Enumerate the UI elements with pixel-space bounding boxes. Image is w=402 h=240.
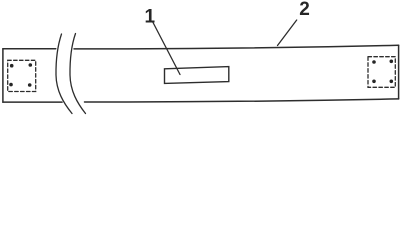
strip 2: top edge right segment bbox=[74, 45, 399, 49]
strip 2: bottom edge right segment bbox=[85, 99, 399, 102]
leader line for label 1 bbox=[153, 22, 181, 75]
left square corner dot TR bbox=[29, 63, 33, 67]
svg-text:1: 1 bbox=[145, 6, 156, 27]
leader line for label 2 bbox=[278, 20, 297, 46]
left dashed square bbox=[8, 60, 36, 91]
right square corner dot BR bbox=[390, 80, 394, 84]
right square corner dot TL bbox=[372, 60, 376, 64]
strip 2: left end edge bbox=[2, 49, 4, 102]
right dashed square bbox=[368, 57, 395, 88]
strip 2: right end edge bbox=[398, 45, 400, 99]
strip 2: top edge left segment bbox=[3, 48, 56, 50]
strip 2: bottom edge left segment bbox=[3, 101, 62, 103]
svg-text:2: 2 bbox=[299, 0, 310, 20]
left square corner dot BL bbox=[9, 83, 13, 87]
break line right bbox=[70, 34, 86, 114]
break line left bbox=[56, 34, 72, 114]
element 1 rectangle bbox=[165, 67, 229, 84]
left square corner dot TL bbox=[10, 64, 14, 68]
right square corner dot BL bbox=[372, 80, 376, 84]
right square corner dot TR bbox=[390, 60, 394, 64]
left square corner dot BR bbox=[28, 83, 32, 87]
